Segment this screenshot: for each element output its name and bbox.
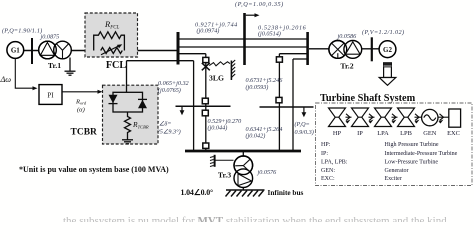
resistor R_FCL parallel branch [94,32,125,51]
wire bus to Tr.3 [242,151,244,157]
wire parallel branch vertical left [193,61,195,150]
svg-text:j0.0576: j0.0576 [257,169,278,176]
svg-text:j0.0586: j0.0586 [337,33,358,40]
ground infinite bus [226,190,265,197]
svg-text:(P,Q=: (P,Q= [295,121,310,128]
svg-text:EXC:: EXC: [321,176,335,182]
svg-text:Low-Pressure Turbine: Low-Pressure Turbine [385,160,439,166]
svg-text:0.9/0.3): 0.9/0.3) [295,129,314,136]
transformer Tr.1 [39,41,72,59]
coupling torque arrows [346,120,444,124]
legend [321,142,458,182]
svg-text:Exciter: Exciter [385,176,402,182]
FCL box [85,13,138,57]
bus 3 [306,32,309,65]
svg-text:GEN: GEN [423,130,437,137]
ground under Tr.1 [65,58,76,76]
svg-text:Rord: Rord [75,99,87,106]
load arrow right [303,107,305,113]
svg-text:GEN:: GEN: [321,168,335,174]
generator GEN circle [422,109,438,125]
svg-text:HP:: HP: [321,142,331,148]
svg-text:LPB: LPB [400,130,412,137]
svg-text:HP: HP [333,130,342,137]
svg-text:3LG: 3LG [209,74,224,83]
bus 2 left lower [176,105,231,107]
exciter EXC box [449,109,461,127]
breaker CB above bus2 [202,98,208,104]
svg-text:(j0.042): (j0.042) [246,133,266,140]
arrow power flow at middle bus [246,14,256,16]
svg-text:Turbine Shaft System: Turbine Shaft System [320,93,416,104]
ground neutral Tr.3 [210,155,234,167]
breaker CB right top [276,57,282,62]
svg-text:(j0.0514): (j0.0514) [258,31,281,38]
svg-text:(j0.0765): (j0.0765) [158,87,181,94]
svg-text:TCBR: TCBR [71,128,98,138]
bus middle [243,13,246,65]
svg-text:(j0.044): (j0.044) [208,124,228,131]
wire into TCBR [126,61,128,93]
svg-text:G2: G2 [383,46,392,54]
fault X 3LG [202,63,210,70]
breaker CB bottom [203,143,209,148]
feedback wire G1 to PI [15,58,33,88]
svg-text:*Unit is pu value on system ba: *Unit is pu value on system base (100 MV… [19,165,169,174]
svg-text:(P,Q=1.90/1.1): (P,Q=1.90/1.1) [2,27,42,34]
wire right parallel vertical [292,59,294,150]
svg-text:IP: IP [357,130,363,137]
svg-text:1.04∠0.0°: 1.04∠0.0° [181,188,214,197]
bus bottom [185,150,301,153]
turbine LPB [398,108,415,127]
wire stub bus1 to fault branch [178,53,206,55]
transformer Tr.3 [234,156,253,188]
generator G1 [7,42,24,59]
wire TCBR tap [127,60,194,62]
wire stub bus3 second [293,58,308,60]
thyristor pair TCBR [113,92,143,112]
svg-text:High Pressure Turbine: High Pressure Turbine [385,142,439,148]
svg-text:PI: PI [47,92,54,100]
svg-text:Generator: Generator [385,168,409,174]
turbine labels [333,130,460,137]
svg-text:Infinite bus: Infinite bus [268,188,304,197]
wire fault branch vertical [205,54,207,150]
block arrow to turbine system [379,63,396,86]
svg-text:(j0.0974): (j0.0974) [197,28,220,35]
svg-text:Tr.1: Tr.1 [48,61,61,70]
fault hatch bar [230,61,232,81]
wire bus3 to Tr.2 [309,48,330,50]
generator G2 [379,41,396,58]
svg-text:Intermediate-Pressure Turbine: Intermediate-Pressure Turbine [385,151,458,157]
svg-text:(P,V=1.2/1.02): (P,V=1.2/1.02) [362,29,405,36]
bus 4 G2 [371,37,373,61]
fault lightning zigzag [209,62,230,66]
svg-text:FCL: FCL [106,60,127,71]
turbine LPA [375,108,392,127]
wire PI to TCBR [62,91,98,93]
svg-text:EXC: EXC [447,130,460,137]
turbine shaft system box [316,103,473,186]
svg-text:Tr.3: Tr.3 [218,170,231,179]
TCBR box [103,85,159,144]
svg-text:the subsystem is pu model for: the subsystem is pu model for MVT stabil… [63,215,447,222]
svg-text:IP:: IP: [321,151,328,157]
svg-text:G1: G1 [11,47,20,55]
breaker CB top [203,57,209,62]
svg-text:LPA, LPB:: LPA, LPB: [321,160,348,166]
breaker CB right above bus5 [276,97,282,102]
turbine IP [352,108,369,127]
bus 5 right lower [260,106,314,108]
wire line 1 top circuit [178,38,308,40]
svg-text:(j0.0593): (j0.0593) [246,84,269,91]
bus 1 [177,32,180,65]
resistor R_TCBR [125,112,131,140]
svg-text:Tr.2: Tr.2 [340,62,353,71]
wire main G1 to bus1 [22,50,178,52]
svg-text:j0.0875: j0.0875 [40,34,60,41]
svg-text:Δω: Δω [0,75,11,84]
wire Tr.2 to bus4 [361,48,379,50]
wire Tr.3 to infinite bus [242,188,244,191]
node G1 bus tick [31,38,33,64]
load arrow left [181,106,183,111]
svg-text:LPA: LPA [377,130,389,137]
breaker CB below bus2 [202,110,208,116]
transformer Tr.2 [329,41,362,59]
resistor FCL series variable [101,48,123,54]
wire stub bus3 to right fault branch [279,53,307,55]
controller PI box [39,85,62,105]
svg-text:(α): (α) [77,107,85,114]
wire line 2 second circuit [178,46,308,48]
turbine HP [329,108,346,127]
ground TCBR [122,140,133,144]
shaft couplings [335,114,449,121]
svg-text:(P,Q=1.00,0.35): (P,Q=1.00,0.35) [235,1,284,8]
wire right branch vertical with CBs [278,54,280,150]
